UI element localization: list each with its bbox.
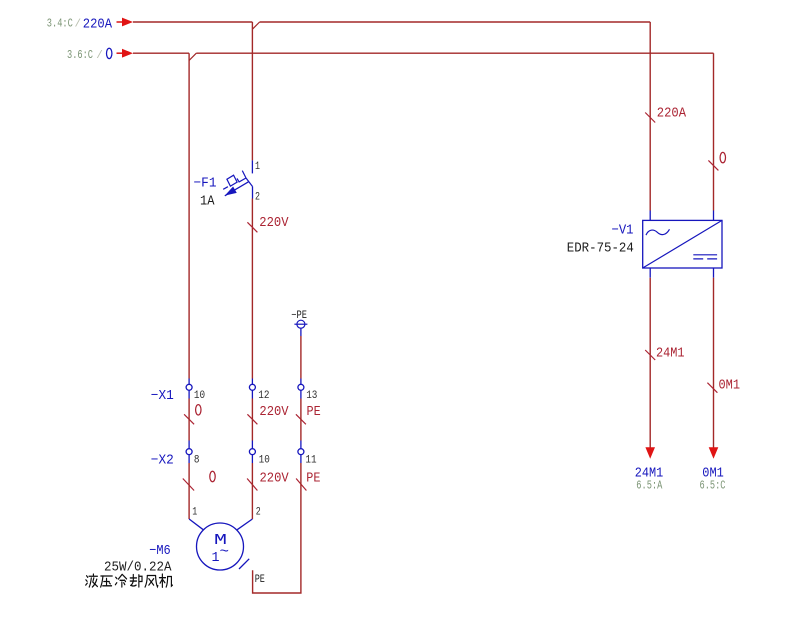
svg-text:−X2: −X2 — [151, 453, 174, 469]
svg-text:~: ~ — [220, 545, 230, 561]
power supply V1 pin stubs top — [650, 211, 713, 221]
arrow outgoing 0M1 — [709, 447, 719, 459]
terminal X1:12 — [249, 379, 269, 402]
arrow incoming 0 — [117, 49, 134, 58]
svg-text:24M1: 24M1 — [656, 345, 685, 361]
svg-text:1: 1 — [212, 550, 220, 566]
svg-text:3.6:C: 3.6:C — [67, 49, 93, 62]
svg-text:220V: 220V — [259, 215, 289, 231]
wire label tick — [183, 479, 194, 491]
glyph 冷 — [115, 574, 126, 587]
svg-text:6.5:C: 6.5:C — [700, 480, 726, 493]
svg-text:2: 2 — [256, 507, 261, 519]
terminal X1:13 — [298, 379, 318, 402]
wire segments X1 to X2 — [189, 399, 301, 441]
arrow incoming 220A — [117, 18, 134, 27]
svg-text:/: / — [96, 50, 103, 62]
motor M6 pin leads — [189, 519, 252, 530]
svg-text:10: 10 — [194, 390, 205, 402]
wire label tick 220A — [645, 113, 655, 123]
wire vertical to V1 left pin — [649, 22, 651, 211]
glyph 液 — [86, 574, 98, 587]
terminal X2:8 — [186, 441, 199, 467]
wire label tick — [247, 414, 257, 424]
wire vertical phase branch x=252.4 (220A to F1) — [251, 22, 253, 160]
wire net 220A horizontal — [133, 21, 650, 23]
glyph 却 — [130, 575, 142, 587]
motor M6 circle — [197, 523, 244, 570]
glyph 机 — [159, 574, 172, 587]
svg-text:10: 10 — [259, 454, 270, 466]
fuse F1 pin 2 stub — [252, 187, 254, 199]
wire label tick — [184, 414, 194, 424]
wire label tick — [296, 414, 306, 424]
junction jog at x=189.1 on 0 wire — [189, 53, 196, 60]
svg-text:220A: 220A — [657, 106, 687, 122]
wire PE vertical x=300.9 — [300, 336, 302, 379]
interruption point source label 3.6:C / 0 — [67, 48, 112, 62]
glyph 压 — [101, 576, 113, 587]
motor PE connection tick — [239, 559, 249, 569]
svg-text:−X1: −X1 — [151, 388, 174, 404]
svg-text:1: 1 — [255, 161, 260, 173]
wire 24M1 down from V1 — [649, 278, 651, 448]
svg-text:6.5:A: 6.5:A — [636, 480, 662, 493]
wire vertical to V1 right pin — [713, 53, 715, 210]
fuse F1 pin 1 stub — [251, 160, 253, 173]
svg-text:−M6: −M6 — [149, 543, 171, 559]
svg-text:EDR-75-24: EDR-75-24 — [567, 241, 634, 257]
wire 0M1 down from V1 — [713, 278, 715, 448]
wire net 0 horizontal — [133, 52, 714, 54]
svg-text:2: 2 — [255, 191, 260, 203]
power supply V1 pin stubs bottom — [650, 268, 713, 278]
wire vertical neutral branch x=189.1 — [188, 53, 190, 378]
svg-text:8: 8 — [194, 454, 200, 466]
svg-text:0M1: 0M1 — [719, 378, 741, 394]
svg-text:/: / — [75, 19, 82, 31]
glyph 风 — [145, 576, 158, 588]
svg-text:−V1: −V1 — [612, 223, 634, 239]
circuit breaker F1 symbol — [223, 171, 252, 196]
svg-text:220V: 220V — [260, 471, 290, 487]
wire below F1 — [251, 199, 253, 379]
junction jog at x=252.4 on 220A wire — [252, 22, 259, 29]
svg-text:13: 13 — [306, 390, 317, 402]
power supply V1 body EDR-75-24 — [643, 220, 722, 268]
svg-text:PE: PE — [307, 404, 321, 420]
svg-text:3.4:C: 3.4:C — [47, 18, 73, 31]
PE node symbol — [291, 310, 307, 336]
wire label 0 below X2:8 — [210, 471, 215, 481]
svg-text:1: 1 — [192, 507, 197, 519]
svg-text:11: 11 — [305, 454, 317, 466]
svg-text:12: 12 — [258, 390, 269, 402]
interruption point source label 3.4:C / 220A — [47, 16, 113, 32]
terminal X1:10 — [186, 379, 205, 402]
svg-text:220V: 220V — [259, 404, 289, 420]
svg-text:−F1: −F1 — [194, 176, 217, 192]
wire label tick 0 — [708, 160, 718, 170]
svg-text:PE: PE — [306, 471, 320, 487]
arrow outgoing 24M1 — [645, 447, 655, 459]
svg-text:PE: PE — [255, 574, 266, 586]
svg-text:1A: 1A — [200, 194, 215, 210]
wire segments X2 down to motor — [189, 463, 252, 519]
wire label tick 24M1 — [645, 350, 655, 360]
wire label tick 0M1 — [707, 383, 717, 393]
wire label tick — [247, 479, 257, 491]
terminal X2:11 — [298, 441, 317, 467]
svg-text:220A: 220A — [83, 16, 113, 32]
wire label tick 220V — [247, 222, 257, 232]
wire label 0 — [720, 152, 725, 162]
device function text (Chinese: hydraulic cooling fan) hand-drawn glyphs — [86, 574, 173, 587]
wire label 0 below X1:10 — [196, 405, 201, 415]
svg-text:25W/0.22A: 25W/0.22A — [104, 560, 172, 576]
wire label tick — [296, 479, 306, 491]
terminal X2:10 — [249, 441, 269, 467]
wire PE loop to motor — [253, 463, 301, 593]
